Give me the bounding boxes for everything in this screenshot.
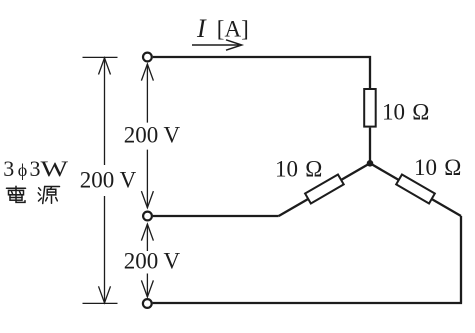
svg-text:3: 3 xyxy=(3,156,14,181)
svg-text:[A]: [A] xyxy=(217,16,249,41)
svg-text:I: I xyxy=(196,14,207,43)
svg-text:10 Ω: 10 Ω xyxy=(382,99,429,124)
svg-text:200 V: 200 V xyxy=(124,249,181,274)
svg-text:200 V: 200 V xyxy=(124,123,181,148)
svg-text:3W: 3W xyxy=(30,156,69,181)
svg-text:200 V: 200 V xyxy=(80,168,137,193)
svg-text:10 Ω: 10 Ω xyxy=(275,156,322,181)
svg-text:10 Ω: 10 Ω xyxy=(414,155,461,180)
svg-text:ϕ: ϕ xyxy=(18,160,27,180)
